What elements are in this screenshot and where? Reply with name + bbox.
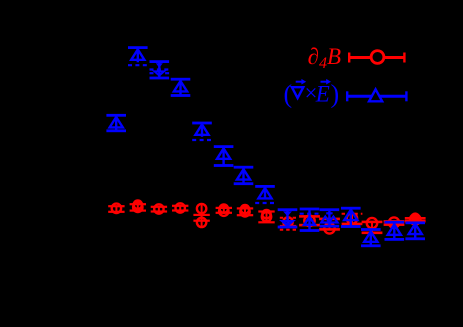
red point 12: circle marker with error bar <box>342 213 363 225</box>
blue point 4: triangle marker with error bar <box>171 78 191 97</box>
red point 10: circle marker with error bar <box>299 215 320 226</box>
blue point 6: triangle marker with error bar <box>214 145 234 167</box>
blue point 13: triangle marker with error bar <box>361 228 381 247</box>
blue point 3: triangle marker with error bar <box>150 60 170 79</box>
blue point 9: triangle marker with error bar <box>278 208 298 228</box>
red point 7: circle marker with error bar <box>237 205 253 217</box>
red point 2: circle marker with error bar <box>130 201 146 213</box>
red point 5: circle marker with error bar <box>193 204 209 227</box>
blue point 12: triangle marker with error bar <box>341 207 361 228</box>
red point 6: circle marker with error bar <box>216 204 232 215</box>
svg-text:): ) <box>331 80 340 109</box>
svg-text:(: ( <box>284 80 293 109</box>
red point 1: circle marker with error bar <box>108 204 124 213</box>
blue point 11: triangle marker with error bar <box>320 208 340 227</box>
blue point 7: triangle marker with error bar <box>234 166 254 185</box>
red point 9: circle marker with error bar <box>280 217 296 230</box>
blue point 10: triangle marker with error bar <box>300 208 320 232</box>
blue point 8: triangle marker with error bar <box>255 185 275 203</box>
legend sample line blue with triangle marker <box>346 89 408 101</box>
red point 8: circle marker with error bar <box>258 210 274 223</box>
blue point 1: triangle marker with error bar <box>106 114 126 132</box>
blue point 14: triangle marker with error bar <box>385 221 405 241</box>
legend sample line red with circle marker <box>348 51 406 64</box>
red point 14: circle marker with error bar <box>384 217 405 227</box>
svg-text:E: E <box>315 82 330 107</box>
red point 3: circle marker with error bar <box>151 204 167 213</box>
blue point 5: triangle marker with error bar <box>192 122 212 140</box>
legend label (curl E) blue <box>284 79 340 109</box>
red point 15: circle marker with error bar <box>405 213 426 224</box>
blue point 15: triangle marker with error bar <box>405 221 425 240</box>
red point 11: circle marker with error bar <box>319 218 340 234</box>
blue point 2: triangle marker with error bar <box>128 46 148 65</box>
legend label dB/dt (red), partial_4 B <box>308 44 341 72</box>
red point 4: circle marker with error bar <box>172 203 188 212</box>
red point 13: circle marker with error bar <box>362 218 383 234</box>
